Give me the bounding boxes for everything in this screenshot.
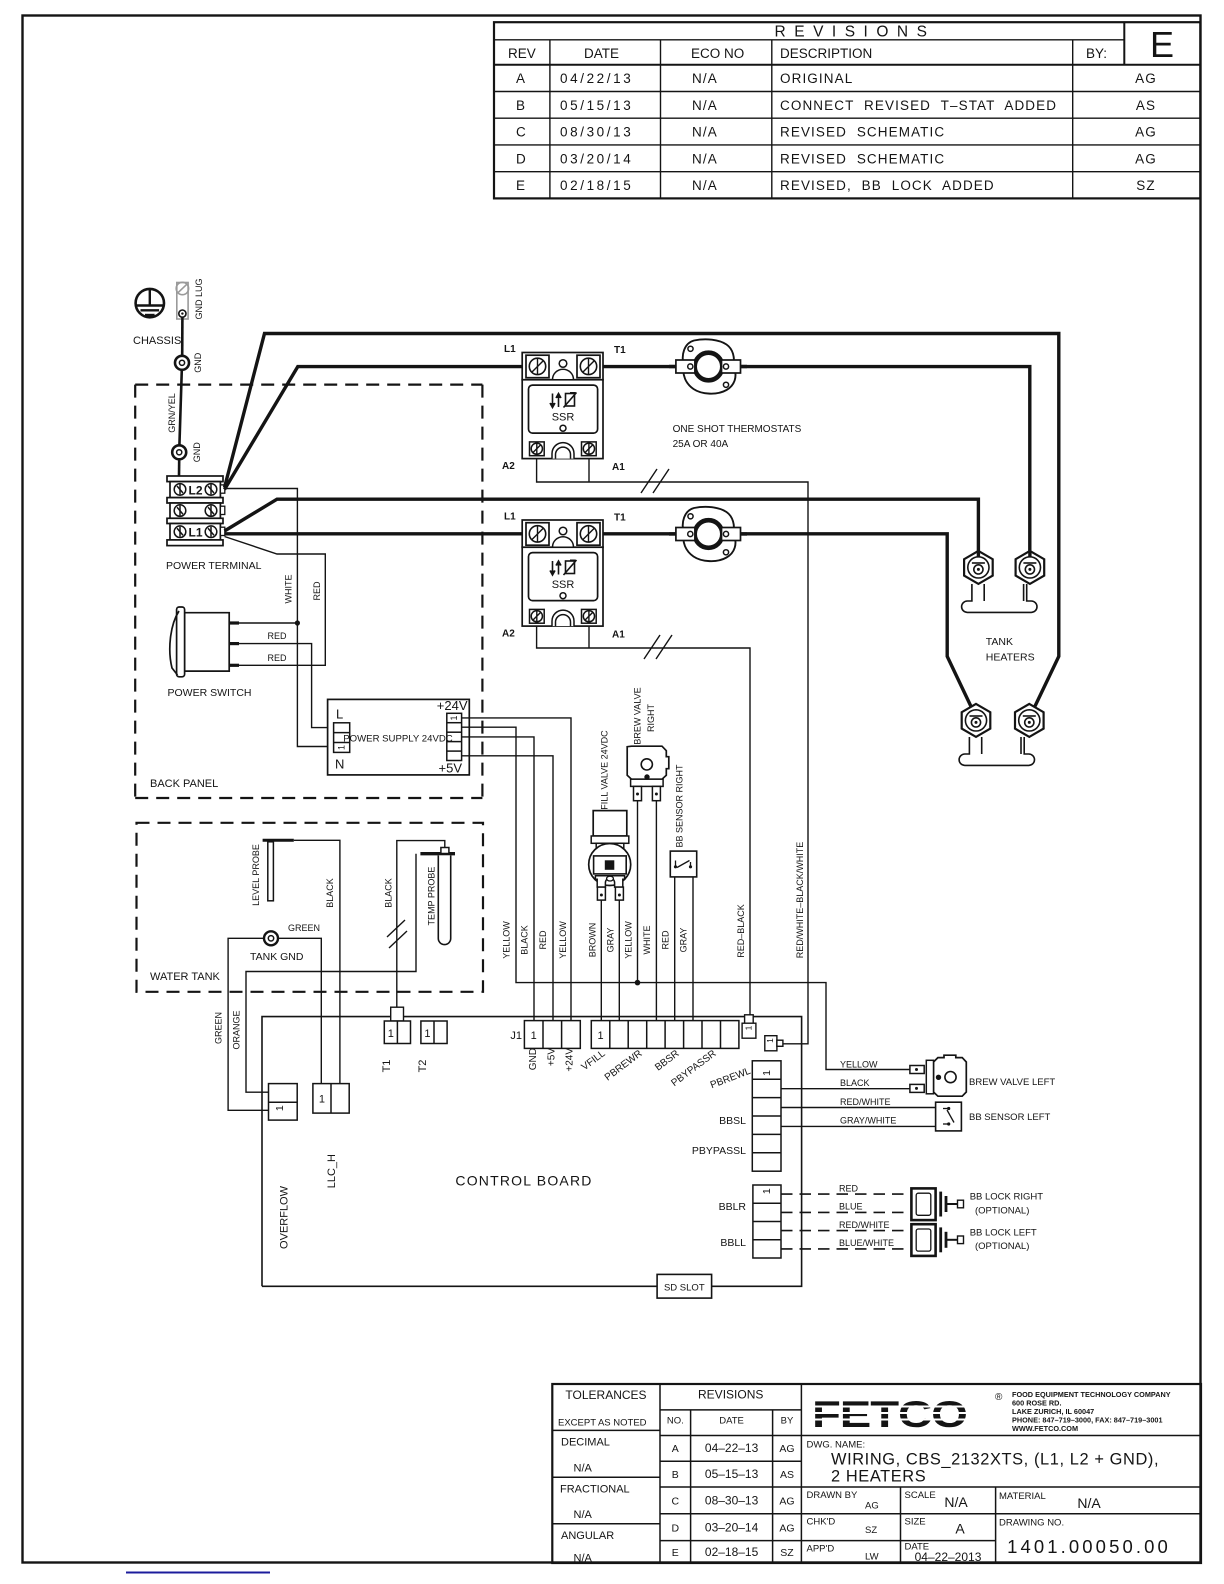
- svg-text:A2: A2: [502, 629, 515, 640]
- svg-text:1: 1: [449, 715, 459, 720]
- svg-text:1: 1: [761, 1188, 773, 1194]
- svg-text:N/A: N/A: [692, 151, 718, 166]
- svg-text:N/A: N/A: [692, 71, 718, 86]
- svg-text:T1: T1: [614, 513, 626, 524]
- svg-text:GREEN: GREEN: [288, 923, 320, 933]
- svg-text:REVISIONS: REVISIONS: [698, 1388, 763, 1402]
- svg-text:GND: GND: [192, 442, 202, 463]
- svg-text:BB LOCK LEFT: BB LOCK LEFT: [970, 1227, 1037, 1238]
- svg-text:BY:: BY:: [1086, 46, 1107, 61]
- svg-text:04–22–2013: 04–22–2013: [915, 1550, 982, 1564]
- svg-text:A2: A2: [502, 461, 515, 472]
- svg-text:FRACTIONAL: FRACTIONAL: [560, 1484, 630, 1496]
- svg-text:MATERIAL: MATERIAL: [999, 1491, 1046, 1502]
- svg-text:1: 1: [319, 1094, 325, 1106]
- svg-text:CHK'D: CHK'D: [807, 1517, 836, 1528]
- svg-text:WWW.FETCO.COM: WWW.FETCO.COM: [1012, 1424, 1078, 1433]
- svg-text:E: E: [1150, 24, 1174, 65]
- svg-text:AG: AG: [779, 1522, 794, 1534]
- svg-text:RED–BLACK: RED–BLACK: [736, 904, 746, 958]
- svg-text:RED/WHITE–BLACK/WHITE: RED/WHITE–BLACK/WHITE: [795, 842, 805, 959]
- svg-text:02–18–15: 02–18–15: [705, 1545, 759, 1559]
- svg-text:1: 1: [744, 1025, 754, 1030]
- svg-text:GND: GND: [528, 1048, 539, 1070]
- svg-text:ORANGE: ORANGE: [232, 1010, 242, 1049]
- svg-text:02/18/15: 02/18/15: [560, 178, 633, 193]
- svg-text:+24V: +24V: [565, 1048, 576, 1072]
- svg-text:ONE SHOT THERMOSTATS: ONE SHOT THERMOSTATS: [673, 424, 802, 435]
- svg-text:B: B: [672, 1469, 679, 1481]
- svg-text:GREEN: GREEN: [214, 1012, 224, 1044]
- svg-text:DATE: DATE: [584, 46, 619, 61]
- svg-text:REVISED, BB LOCK ADDED: REVISED, BB LOCK ADDED: [780, 178, 995, 193]
- svg-text:YELLOW: YELLOW: [501, 921, 511, 959]
- svg-text:A1: A1: [612, 630, 625, 641]
- svg-text:BB SENSOR LEFT: BB SENSOR LEFT: [969, 1112, 1050, 1123]
- svg-text:A: A: [672, 1443, 679, 1455]
- svg-text:A: A: [955, 1521, 965, 1537]
- svg-text:C: C: [672, 1496, 680, 1508]
- svg-text:DRAWN BY: DRAWN BY: [807, 1490, 859, 1501]
- svg-text:SIZE: SIZE: [905, 1517, 926, 1528]
- svg-text:WIRING, CBS_2132XTS, (L1, L: WIRING, CBS_2132XTS, (L1, L2 + GND),: [831, 1451, 1159, 1469]
- svg-text:SZ: SZ: [1136, 178, 1155, 193]
- svg-text:AG: AG: [1135, 125, 1157, 140]
- svg-text:RED: RED: [839, 1183, 859, 1193]
- svg-text:03/20/14: 03/20/14: [560, 151, 633, 166]
- svg-text:25A OR 40A: 25A OR 40A: [673, 439, 729, 450]
- svg-text:08–30–13: 08–30–13: [705, 1494, 759, 1508]
- svg-text:T1: T1: [381, 1060, 393, 1073]
- svg-text:®: ®: [995, 1392, 1003, 1403]
- svg-text:1: 1: [531, 1030, 537, 1042]
- svg-text:04–22–13: 04–22–13: [705, 1441, 759, 1455]
- svg-text:AS: AS: [1136, 98, 1156, 113]
- svg-text:N/A: N/A: [1077, 1495, 1101, 1511]
- svg-text:RED: RED: [267, 653, 287, 663]
- svg-text:+24V: +24V: [437, 698, 468, 713]
- svg-text:03–20–14: 03–20–14: [705, 1520, 759, 1534]
- svg-text:N/A: N/A: [692, 125, 718, 140]
- svg-text:N: N: [335, 757, 344, 772]
- svg-text:BBLL: BBLL: [720, 1237, 746, 1249]
- svg-text:RED: RED: [267, 631, 287, 641]
- svg-text:T2: T2: [417, 1060, 429, 1073]
- svg-text:HEATERS: HEATERS: [986, 652, 1035, 664]
- svg-text:B: B: [516, 98, 526, 113]
- svg-text:RED/WHITE: RED/WHITE: [839, 1220, 890, 1230]
- svg-text:FILL VALVE 24VDC: FILL VALVE 24VDC: [600, 730, 610, 810]
- svg-text:APP'D: APP'D: [807, 1543, 835, 1554]
- svg-text:RED/WHITE: RED/WHITE: [840, 1097, 891, 1107]
- svg-text:N/A: N/A: [574, 1463, 593, 1475]
- svg-text:08/30/13: 08/30/13: [560, 125, 633, 140]
- svg-text:1: 1: [761, 1070, 773, 1076]
- svg-text:L2: L2: [188, 483, 202, 497]
- svg-text:BLUE: BLUE: [839, 1202, 863, 1212]
- svg-text:1: 1: [274, 1105, 286, 1111]
- svg-text:LLC_H: LLC_H: [326, 1154, 338, 1188]
- svg-text:WATER TANK: WATER TANK: [150, 971, 221, 983]
- svg-text:YELLOW: YELLOW: [840, 1060, 878, 1070]
- svg-text:GND: GND: [193, 352, 203, 373]
- svg-text:BY: BY: [781, 1416, 794, 1427]
- svg-text:AG: AG: [1135, 151, 1157, 166]
- svg-text:BLACK: BLACK: [325, 878, 335, 908]
- svg-text:AG: AG: [779, 1443, 794, 1455]
- svg-text:E: E: [672, 1547, 679, 1559]
- svg-text:+5V: +5V: [547, 1048, 558, 1066]
- svg-text:L1: L1: [504, 344, 516, 355]
- svg-text:BBLR: BBLR: [719, 1201, 747, 1213]
- svg-text:POWER SUPPLY 24VDC: POWER SUPPLY 24VDC: [343, 734, 453, 745]
- svg-text:1: 1: [337, 745, 347, 750]
- svg-text:05–15–13: 05–15–13: [705, 1467, 759, 1481]
- svg-text:DWG. NAME:: DWG. NAME:: [807, 1440, 866, 1451]
- svg-text:REVISED SCHEMATIC: REVISED SCHEMATIC: [780, 151, 945, 166]
- svg-text:CHASSIS: CHASSIS: [133, 335, 181, 347]
- svg-text:CONTROL BOARD: CONTROL BOARD: [455, 1173, 592, 1189]
- svg-text:BB LOCK RIGHT: BB LOCK RIGHT: [970, 1192, 1044, 1203]
- svg-text:ECO NO: ECO NO: [691, 46, 744, 61]
- svg-text:SZ: SZ: [780, 1547, 794, 1559]
- svg-text:WHITE: WHITE: [284, 575, 294, 604]
- svg-text:D: D: [672, 1522, 680, 1534]
- svg-text:RED: RED: [312, 581, 322, 601]
- svg-text:RIGHT: RIGHT: [646, 704, 656, 733]
- svg-text:LEVEL PROBE: LEVEL PROBE: [251, 844, 261, 906]
- svg-text:DRAWING NO.: DRAWING NO.: [999, 1518, 1064, 1529]
- svg-text:BLACK: BLACK: [384, 878, 394, 908]
- svg-text:BB SENSOR RIGHT: BB SENSOR RIGHT: [675, 764, 685, 848]
- svg-text:REVISED SCHEMATIC: REVISED SCHEMATIC: [780, 125, 945, 140]
- svg-text:N/A: N/A: [692, 98, 718, 113]
- svg-text:GRAY: GRAY: [606, 928, 616, 953]
- svg-text:SCALE: SCALE: [905, 1490, 936, 1501]
- svg-text:2 HEATERS: 2 HEATERS: [831, 1468, 926, 1486]
- svg-text:REV: REV: [508, 46, 536, 61]
- svg-text:OVERFLOW: OVERFLOW: [279, 1185, 291, 1249]
- svg-text:(OPTIONAL): (OPTIONAL): [975, 1241, 1029, 1252]
- svg-text:A1: A1: [612, 462, 625, 473]
- svg-text:GRN/YEL: GRN/YEL: [167, 393, 177, 433]
- svg-text:GND LUG: GND LUG: [194, 278, 204, 319]
- svg-text:L1: L1: [188, 526, 202, 540]
- svg-text:J1: J1: [510, 1030, 522, 1042]
- svg-text:1401.00050.00: 1401.00050.00: [1007, 1536, 1171, 1557]
- svg-text:GRAY/WHITE: GRAY/WHITE: [840, 1116, 896, 1126]
- svg-text:YELLOW: YELLOW: [624, 921, 634, 959]
- svg-text:AG: AG: [779, 1496, 794, 1508]
- svg-text:N/A: N/A: [944, 1494, 968, 1510]
- svg-text:L: L: [336, 707, 343, 722]
- svg-text:1: 1: [765, 1038, 775, 1043]
- svg-text:EXCEPT AS NOTED: EXCEPT AS NOTED: [558, 1418, 647, 1429]
- svg-text:N/A: N/A: [574, 1509, 593, 1521]
- svg-text:AG: AG: [865, 1501, 879, 1512]
- svg-text:RED: RED: [538, 930, 548, 950]
- svg-text:TANK GND: TANK GND: [250, 951, 304, 963]
- svg-text:SSR: SSR: [552, 412, 575, 424]
- svg-text:RED: RED: [660, 930, 670, 950]
- svg-text:D: D: [516, 151, 527, 166]
- svg-text:L1: L1: [504, 512, 516, 523]
- svg-text:TANK: TANK: [986, 636, 1013, 648]
- svg-text:GRAY: GRAY: [679, 928, 689, 953]
- svg-text:T1: T1: [614, 345, 626, 356]
- svg-text:BREW VALVE LEFT: BREW VALVE LEFT: [969, 1077, 1055, 1088]
- svg-text:DESCRIPTION: DESCRIPTION: [780, 46, 872, 61]
- svg-text:(OPTIONAL): (OPTIONAL): [975, 1205, 1029, 1216]
- svg-text:SD SLOT: SD SLOT: [664, 1283, 705, 1294]
- svg-text:CONNECT REVISED T–STAT ADDE: CONNECT REVISED T–STAT ADDED: [780, 98, 1057, 113]
- svg-text:NO.: NO.: [667, 1416, 684, 1427]
- svg-text:TOLERANCES: TOLERANCES: [565, 1388, 646, 1402]
- svg-text:POWER SWITCH: POWER SWITCH: [168, 687, 252, 699]
- svg-text:POWER TERMINAL: POWER TERMINAL: [166, 560, 262, 572]
- svg-text:AS: AS: [780, 1469, 794, 1481]
- svg-text:05/15/13: 05/15/13: [560, 98, 633, 113]
- svg-text:BREW VALVE: BREW VALVE: [633, 687, 643, 744]
- svg-text:BACK PANEL: BACK PANEL: [150, 778, 218, 790]
- svg-text:ANGULAR: ANGULAR: [561, 1530, 614, 1542]
- svg-text:C: C: [516, 125, 527, 140]
- svg-text:N/A: N/A: [692, 178, 718, 193]
- svg-text:+5V: +5V: [439, 761, 463, 776]
- svg-text:E: E: [516, 178, 526, 193]
- svg-text:AG: AG: [1135, 71, 1157, 86]
- svg-text:BLACK: BLACK: [520, 925, 530, 955]
- svg-text:REVISIONS: REVISIONS: [775, 24, 936, 41]
- svg-text:BBSL: BBSL: [719, 1115, 746, 1127]
- svg-text:N/A: N/A: [574, 1553, 593, 1565]
- svg-text:BLACK: BLACK: [840, 1078, 870, 1088]
- svg-text:WHITE: WHITE: [642, 926, 652, 955]
- svg-text:SZ: SZ: [865, 1525, 877, 1536]
- svg-text:PBYPASSL: PBYPASSL: [692, 1145, 746, 1157]
- svg-text:ORIGINAL: ORIGINAL: [780, 71, 853, 86]
- svg-text:A: A: [516, 71, 526, 86]
- svg-text:DECIMAL: DECIMAL: [561, 1437, 610, 1449]
- svg-text:BROWN: BROWN: [588, 923, 598, 958]
- svg-text:1: 1: [597, 1030, 603, 1042]
- svg-text:DATE: DATE: [719, 1416, 744, 1427]
- svg-text:1: 1: [388, 1028, 394, 1040]
- svg-text:BLUE/WHITE: BLUE/WHITE: [839, 1238, 894, 1248]
- svg-text:TEMP PROBE: TEMP PROBE: [427, 867, 437, 926]
- svg-text:04/22/13: 04/22/13: [560, 71, 633, 86]
- svg-text:LW: LW: [865, 1552, 879, 1563]
- svg-text:1: 1: [424, 1028, 430, 1040]
- svg-text:YELLOW: YELLOW: [558, 921, 568, 959]
